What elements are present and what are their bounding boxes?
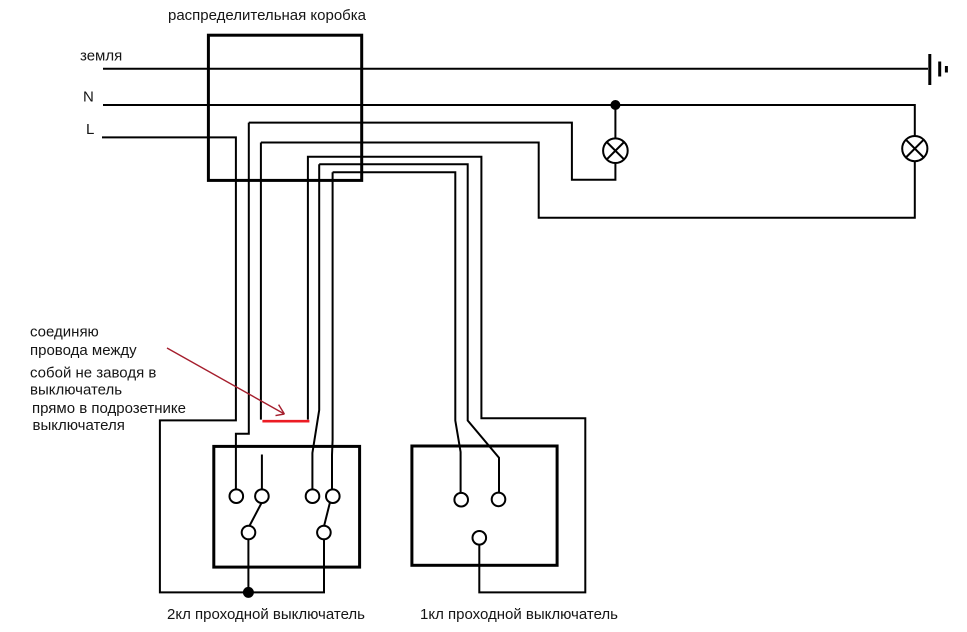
svg-text:провода между: провода между	[30, 342, 137, 359]
svg-text:соединяю: соединяю	[30, 323, 99, 340]
svg-text:2кл проходной выключатель: 2кл проходной выключатель	[167, 606, 365, 623]
svg-text:выключатель: выключатель	[30, 382, 122, 399]
svg-text:прямо в подрозетнике: прямо в подрозетнике	[32, 400, 186, 417]
svg-text:L: L	[86, 121, 94, 138]
svg-text:собой не заводя в: собой не заводя в	[30, 364, 156, 381]
svg-text:1кл проходной выключатель: 1кл проходной выключатель	[420, 606, 618, 623]
svg-text:выключателя: выключателя	[33, 417, 125, 434]
svg-text:N: N	[83, 89, 94, 106]
svg-text:земля: земля	[80, 48, 122, 65]
svg-text:распределительная коробка: распределительная коробка	[168, 7, 367, 24]
